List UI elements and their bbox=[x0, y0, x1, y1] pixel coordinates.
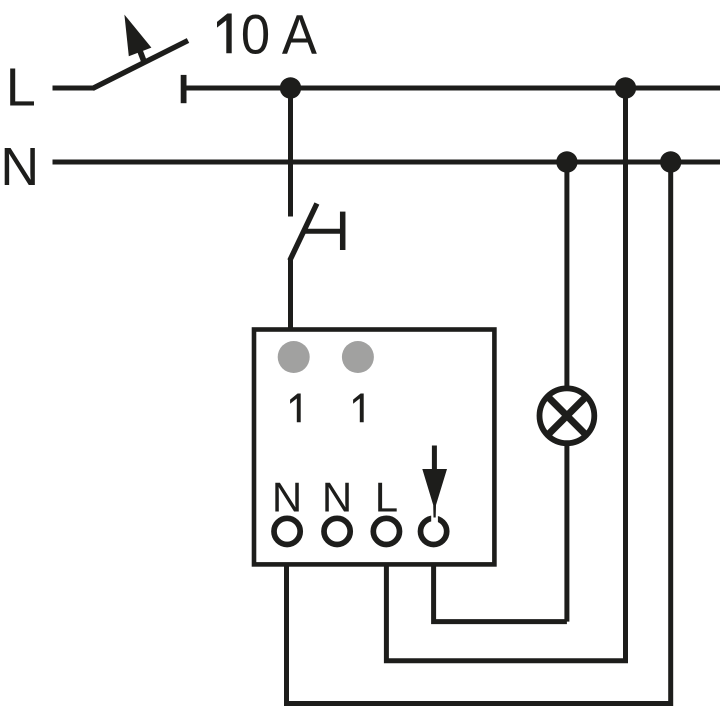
output arrowhead with tail bbox=[422, 469, 447, 518]
push-button actuator link bbox=[304, 229, 343, 234]
push-button actuator bar bbox=[340, 212, 346, 250]
breaker arrowhead bbox=[124, 15, 151, 57]
junction dot on L line at right branch bbox=[615, 77, 636, 98]
label 1 under indicator dot 2 bbox=[353, 394, 364, 423]
wire N terminal 1 to bottom rail up to N line right junction bbox=[287, 162, 671, 704]
breaker arrow stem bbox=[140, 52, 144, 63]
lamp E1 cross bbox=[548, 396, 587, 435]
breaker Q1 blade bbox=[93, 41, 189, 89]
node N label bbox=[0, 137, 39, 197]
push-button S1 blade bbox=[290, 204, 317, 261]
wire from push-button down to device box bbox=[288, 259, 293, 332]
wire L line left segment bbox=[53, 86, 95, 91]
device box U1 outline bbox=[254, 330, 494, 565]
svg-text:L: L bbox=[375, 474, 398, 521]
white gap in terminal circle 4 for arrow tail bbox=[431, 511, 438, 526]
svg-text:L: L bbox=[6, 58, 36, 118]
terminal label N (1) bbox=[272, 474, 302, 521]
terminal circle 3 (L) bbox=[373, 518, 399, 544]
junction dot on L line at push-button branch bbox=[280, 77, 301, 98]
svg-text:N: N bbox=[0, 137, 39, 197]
svg-text:0 A: 0 A bbox=[241, 3, 318, 66]
terminal circle 2 (N) bbox=[324, 518, 350, 544]
terminal label L bbox=[375, 474, 398, 521]
junction dot on N line at right branch bbox=[660, 151, 681, 172]
terminal circle 1 (N) bbox=[274, 518, 300, 544]
svg-text:N: N bbox=[322, 474, 352, 521]
node L label bbox=[6, 58, 36, 118]
terminal label N (2) bbox=[322, 474, 352, 521]
wire switched output terminal to lamp rail bbox=[434, 564, 567, 622]
wire lamp branch from N line bbox=[564, 162, 569, 622]
indicator dot 2 (gray) bbox=[342, 341, 374, 373]
wire N line bbox=[53, 160, 720, 165]
lamp E1 circle bbox=[540, 388, 595, 443]
wire L terminal to middle rail up to L line right junction bbox=[386, 88, 625, 661]
indicator dot 1 (gray) bbox=[278, 341, 310, 373]
wire L line right segment bbox=[184, 86, 720, 91]
svg-text:N: N bbox=[272, 474, 302, 521]
label 1 under indicator dot 1 bbox=[290, 394, 301, 423]
junction dot on N line at lamp branch bbox=[556, 151, 577, 172]
terminal circle 4 (switched output) bbox=[421, 518, 447, 544]
output arrow stem bbox=[432, 446, 437, 472]
wire from L junction down to push-button bbox=[288, 88, 293, 217]
breaker fixed contact tick bbox=[181, 75, 187, 103]
breaker rating label 10 A bbox=[217, 3, 318, 66]
